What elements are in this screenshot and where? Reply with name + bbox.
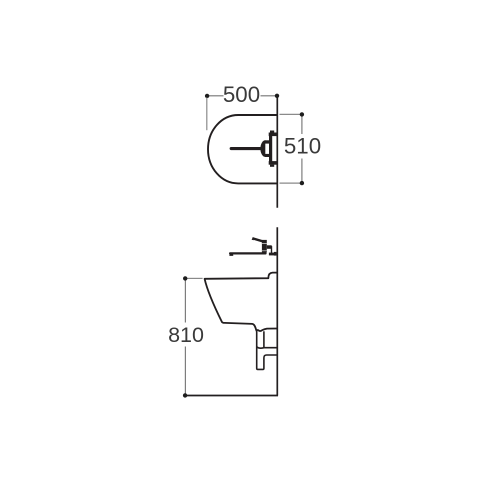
faucet bottom arm (plan view) — [265, 154, 269, 157]
dimension 500 right dot — [275, 94, 279, 98]
dimension 500 line right segment — [261, 95, 277, 97]
faucet wall drop bar (side view) — [271, 246, 272, 253]
faucet wall flange (side view) — [269, 253, 276, 256]
basin profile (side view) — [205, 273, 277, 331]
faucet lever (side view) — [252, 237, 262, 242]
faucet bottom flange (plan view) — [269, 161, 277, 165]
dimension 810 line top segment — [184, 280, 186, 323]
dimension 810 top dot — [183, 276, 187, 280]
faucet body groove 1 (side view) — [262, 242, 267, 244]
faucet top nub (plan view) — [270, 131, 274, 133]
drain trap branch top line — [257, 347, 277, 348]
faucet wall nipple (side view) — [267, 245, 272, 249]
dimension 510 top dot — [300, 112, 304, 116]
faucet body dome (plan view) — [260, 140, 265, 157]
dimension 810 top extension line — [187, 277, 203, 279]
drain trap right wall upper segment — [263, 331, 265, 347]
drain trap (side view) — [257, 331, 277, 369]
faucet bottom nub (plan view) — [270, 165, 274, 167]
wall line (side view) — [276, 227, 278, 395]
faucet top arm (plan view) — [265, 140, 269, 143]
dimension 510 bottom extension line — [280, 182, 301, 184]
dimension 810 line bottom segment — [184, 347, 186, 394]
dimension 810 bottom dot — [183, 393, 187, 397]
faucet aerator nub (side view) — [229, 254, 233, 256]
faucet lever (plan view) — [230, 147, 262, 150]
wall line (plan view) — [276, 95, 278, 208]
faucet top flange (plan view) — [269, 133, 277, 137]
svg-text:510: 510 — [284, 133, 321, 158]
basin outline (plan view, D-shape) — [208, 115, 277, 183]
svg-text:810: 810 — [168, 323, 204, 347]
dimension 510 bottom dot — [300, 181, 304, 185]
faucet spout (side view) — [229, 252, 267, 254]
svg-text:500: 500 — [223, 82, 260, 107]
floor line (side view) — [185, 395, 278, 397]
faucet body groove 2 (side view) — [262, 250, 267, 252]
dimension 510 top extension line — [280, 113, 301, 115]
faucet vertical bar (plan view) — [269, 134, 272, 163]
dimension 500 line left segment — [208, 95, 223, 97]
dimension 510 line top segment — [301, 116, 303, 134]
faucet body (side view) — [262, 240, 267, 253]
faucet lever tip (side view) — [252, 237, 254, 240]
faucet wall block (side view) — [274, 252, 277, 256]
dimension 500 left extension line — [206, 98, 208, 131]
dimension 500 left dot — [205, 94, 209, 98]
dimension 510 line bottom segment — [301, 159, 303, 182]
